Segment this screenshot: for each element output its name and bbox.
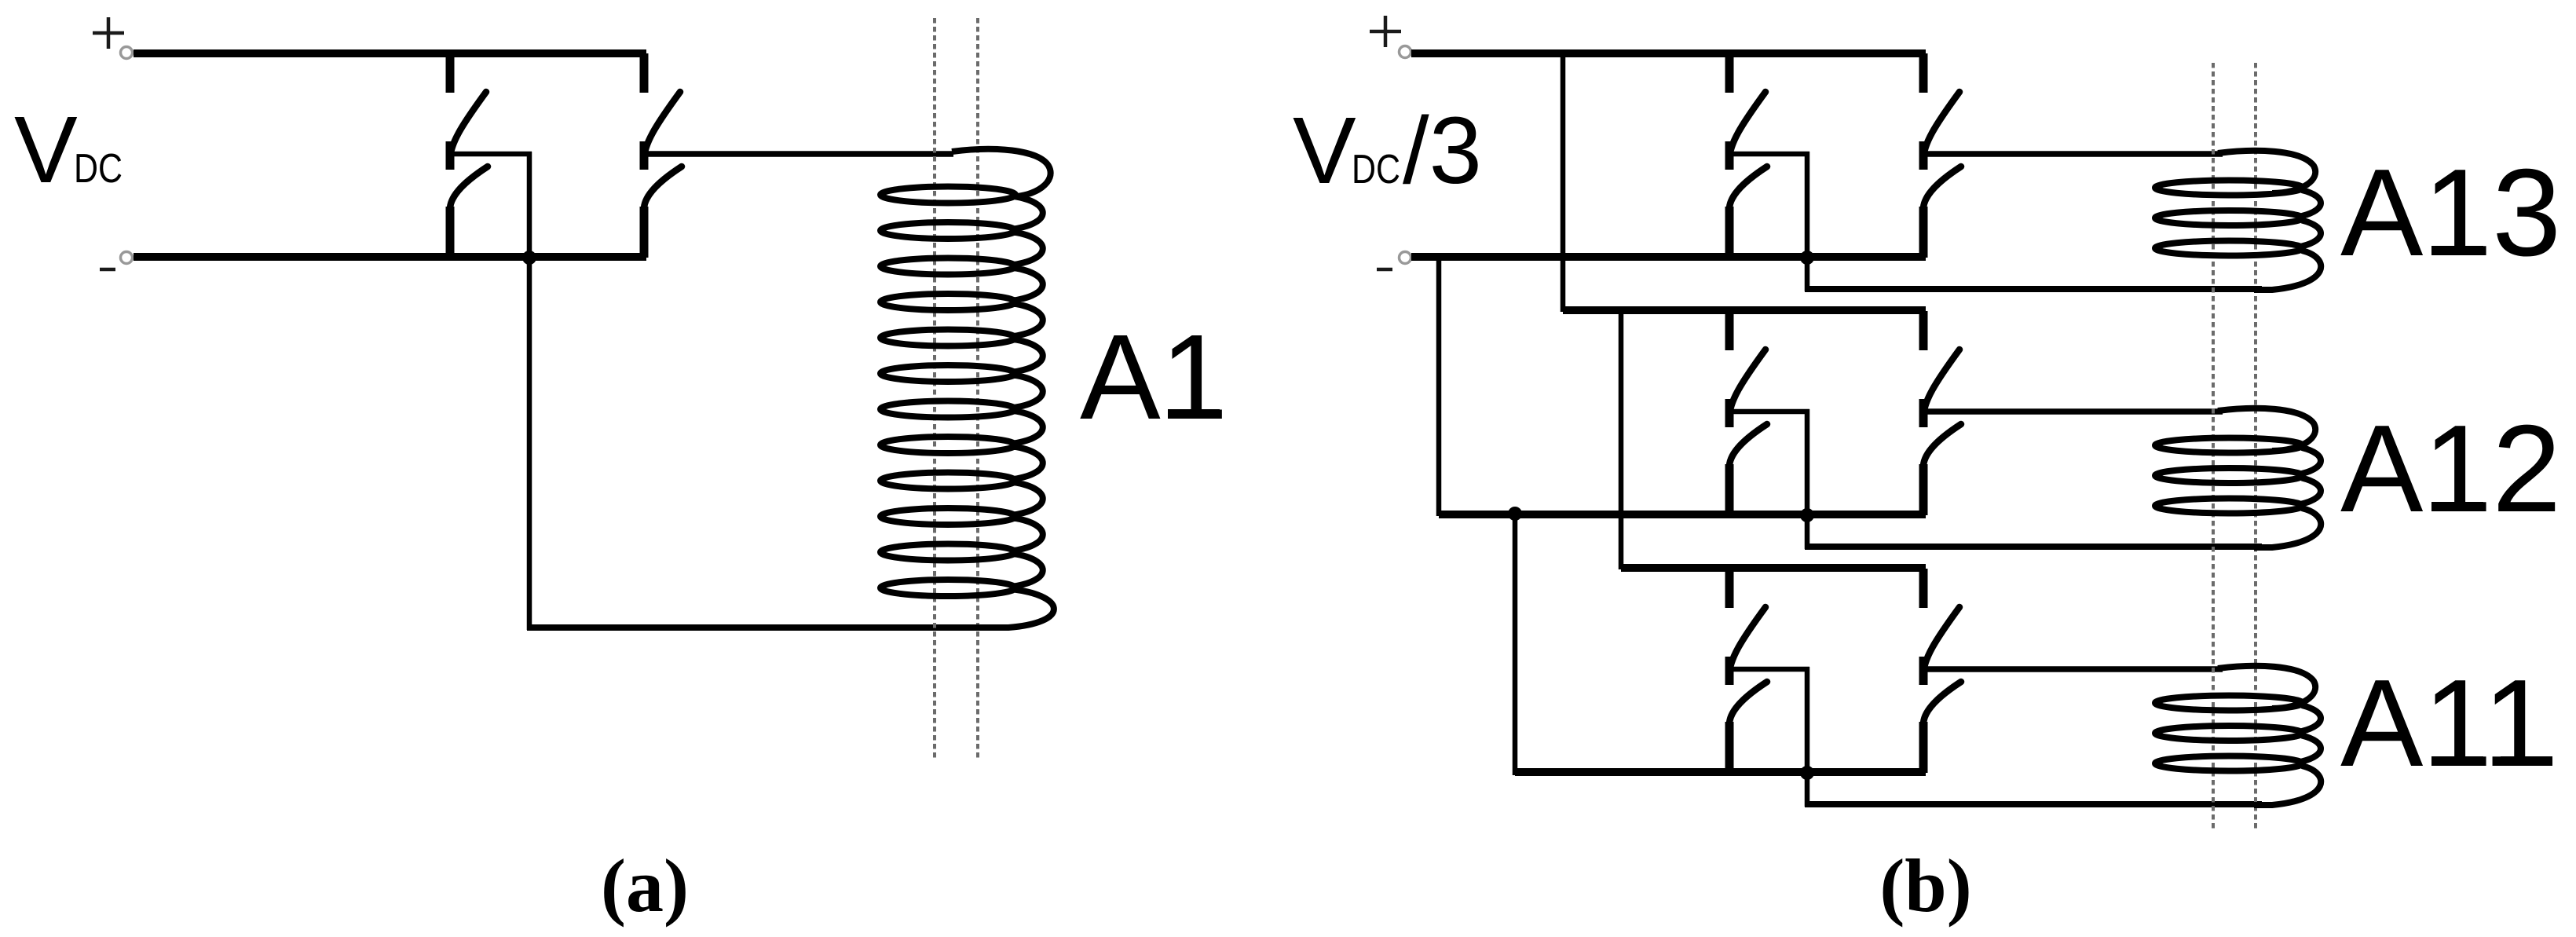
- flux line left (a): [933, 18, 936, 760]
- switch Qb3 lower-left blade: [1729, 682, 1767, 726]
- switch Qa upper-right blade: [644, 92, 680, 161]
- svg-text:(b): (b): [1879, 844, 1971, 928]
- plus sign (b): [1370, 16, 1401, 47]
- switch Qa upper-right pivot: [640, 141, 649, 170]
- wire: Qa left leg top stub: [446, 53, 455, 93]
- wire: plus feed to bridge A12: [1561, 49, 1566, 312]
- wire: mid wire right to coil A1: [640, 151, 953, 157]
- switch Qb1 upper-left pivot: [1725, 141, 1734, 170]
- minus terminal (a): [121, 252, 133, 264]
- svg-text:V: V: [1293, 97, 1356, 203]
- wire: bridge 3 mid wire to coil: [1919, 666, 2223, 672]
- switch Qb1 lower-left blade: [1729, 167, 1767, 210]
- wire: minus feed to bridge A12: [1436, 255, 1442, 516]
- wire: Qb1 left mid wire to output: [1725, 152, 1809, 157]
- minus sign (a): [100, 268, 115, 272]
- switch Qb1 upper-right pivot: [1919, 141, 1928, 170]
- wire: bridge 2 mid wire to coil: [1919, 408, 2223, 415]
- wire: plus feed to bridge A11: [1619, 307, 1624, 569]
- label A11 digit foot: [2431, 756, 2483, 766]
- svg-text:A12: A12: [2340, 400, 2561, 538]
- inductor A12: [2155, 408, 2321, 547]
- wire: bridge 1 mid wire to coil: [1919, 151, 2223, 157]
- wire: Qb1 left leg top stub: [1725, 53, 1734, 93]
- minus sign (b): [1377, 268, 1392, 272]
- switch Qb2 upper-left pivot: [1725, 399, 1734, 427]
- wire: Qb2 right leg top stub: [1919, 311, 1928, 350]
- junction bridge 1 output/bottom-rail: [1800, 251, 1814, 265]
- svg-text:(a): (a): [601, 844, 689, 928]
- wire: top rail (a): [134, 49, 646, 57]
- inductor A11: [2155, 666, 2321, 805]
- wire: Qb3 left leg top stub: [1725, 569, 1734, 608]
- wire: Qb3 right leg top stub: [1919, 569, 1928, 608]
- svg-text:DC: DC: [1352, 147, 1400, 192]
- svg-text:DC: DC: [74, 146, 123, 192]
- wire: top rail bridge A12: [1563, 306, 1926, 314]
- wire: minus feed to bridge A11: [1513, 511, 1518, 775]
- switch Qb3 upper-right blade: [1923, 607, 1959, 676]
- wire: Qb2 left leg top stub: [1725, 311, 1734, 350]
- wire: Qb1 left leg bottom stub: [1725, 207, 1734, 258]
- switch Qa lower-left blade: [450, 167, 488, 210]
- wire: Qb2 right leg bottom stub: [1919, 464, 1928, 515]
- switch Qb2 upper-left blade: [1729, 350, 1766, 419]
- inductor A1: [880, 149, 1054, 628]
- inductor A13: [2155, 151, 2321, 290]
- plus terminal (b): [1400, 46, 1411, 58]
- wire: Qb2 left leg bottom stub: [1725, 464, 1734, 515]
- plus terminal (a): [121, 47, 133, 59]
- switch Qb3 upper-left pivot: [1725, 657, 1734, 685]
- switch Qb2 lower-right blade: [1923, 424, 1961, 468]
- wire: bottom rail (a): [134, 253, 646, 261]
- wire: bridge 2 output vertical: [1805, 409, 1810, 549]
- switch Qb2 upper-right blade: [1923, 350, 1959, 419]
- svg-text:A13: A13: [2340, 144, 2561, 282]
- label A1 digit foot: [1168, 409, 1220, 419]
- wire: Qa right leg top stub: [640, 53, 649, 93]
- switch Qa upper-left pivot: [446, 141, 455, 170]
- wire: Qb3 right leg bottom stub: [1919, 722, 1928, 773]
- label A13 digit foot: [2431, 246, 2483, 255]
- wire: Qb1 right leg bottom stub: [1919, 207, 1928, 258]
- junction bridge 2 output/bottom-rail: [1800, 508, 1814, 522]
- wire: Qb3 left mid wire to output: [1725, 667, 1809, 672]
- switch Qb3 upper-left blade: [1729, 607, 1766, 676]
- wire: bottom rail bridge A12: [1439, 511, 1926, 518]
- switch Qb1 lower-right blade: [1923, 167, 1961, 210]
- wire: bridge 1 coil bottom return: [1805, 286, 2262, 292]
- wire: top rail bridge A13: [1411, 49, 1926, 57]
- wire: Qb2 left mid wire to output: [1725, 409, 1809, 415]
- wire: bridge 3 coil bottom return: [1805, 801, 2262, 807]
- wire: bottom rail bridge A11: [1515, 768, 1926, 776]
- plus sign (a): [93, 17, 124, 49]
- wire: Qb1 right leg top stub: [1919, 53, 1928, 93]
- label A12 digit foot: [2431, 502, 2483, 511]
- wire: bridge 2 coil bottom return: [1805, 544, 2262, 550]
- switch Qb2 upper-right pivot: [1919, 399, 1928, 427]
- wire: Qb3 left leg bottom stub: [1725, 722, 1734, 773]
- switch Qb3 lower-right blade: [1923, 682, 1961, 726]
- junction minus feed A11: [1508, 507, 1522, 521]
- label VDC/3 source voltage (b): [1293, 97, 1482, 203]
- label VDC source voltage (a): [14, 96, 123, 203]
- junction output/bottom-rail (a): [522, 251, 536, 265]
- svg-text:A1: A1: [1080, 309, 1228, 445]
- wire: bridge 1 output vertical: [1805, 152, 1810, 291]
- switch Qb1 upper-right blade: [1923, 92, 1959, 161]
- minus terminal (b): [1400, 252, 1411, 264]
- switch Qb2 lower-left blade: [1729, 424, 1767, 468]
- flux line left (b): [2212, 63, 2215, 829]
- wire: Qa right leg bottom stub: [640, 207, 649, 258]
- wire: bottom rail bridge A13: [1411, 253, 1926, 261]
- wire: bridge 3 output vertical: [1805, 667, 1810, 807]
- svg-text:/3: /3: [1403, 97, 1482, 203]
- wire: Qa left leg bottom stub: [446, 207, 455, 258]
- switch Qb1 upper-left blade: [1729, 92, 1766, 161]
- svg-text:V: V: [14, 96, 78, 203]
- wire: Qa left mid wire to output: [446, 152, 532, 157]
- switch Qa upper-left blade: [450, 92, 486, 161]
- svg-text:A11: A11: [2340, 654, 2552, 792]
- flux line right (b): [2254, 63, 2257, 829]
- switch Qb3 upper-right pivot: [1919, 657, 1928, 685]
- wire: output vertical (a): [527, 152, 532, 630]
- wire: coil A1 bottom return: [527, 624, 974, 631]
- flux line right (a): [976, 18, 979, 760]
- label A11 digit foot: [2501, 756, 2552, 766]
- wire: top rail bridge A11: [1621, 564, 1926, 572]
- junction bridge 3 output/bottom-rail: [1800, 766, 1814, 780]
- switch Qa lower-right blade: [644, 167, 682, 210]
